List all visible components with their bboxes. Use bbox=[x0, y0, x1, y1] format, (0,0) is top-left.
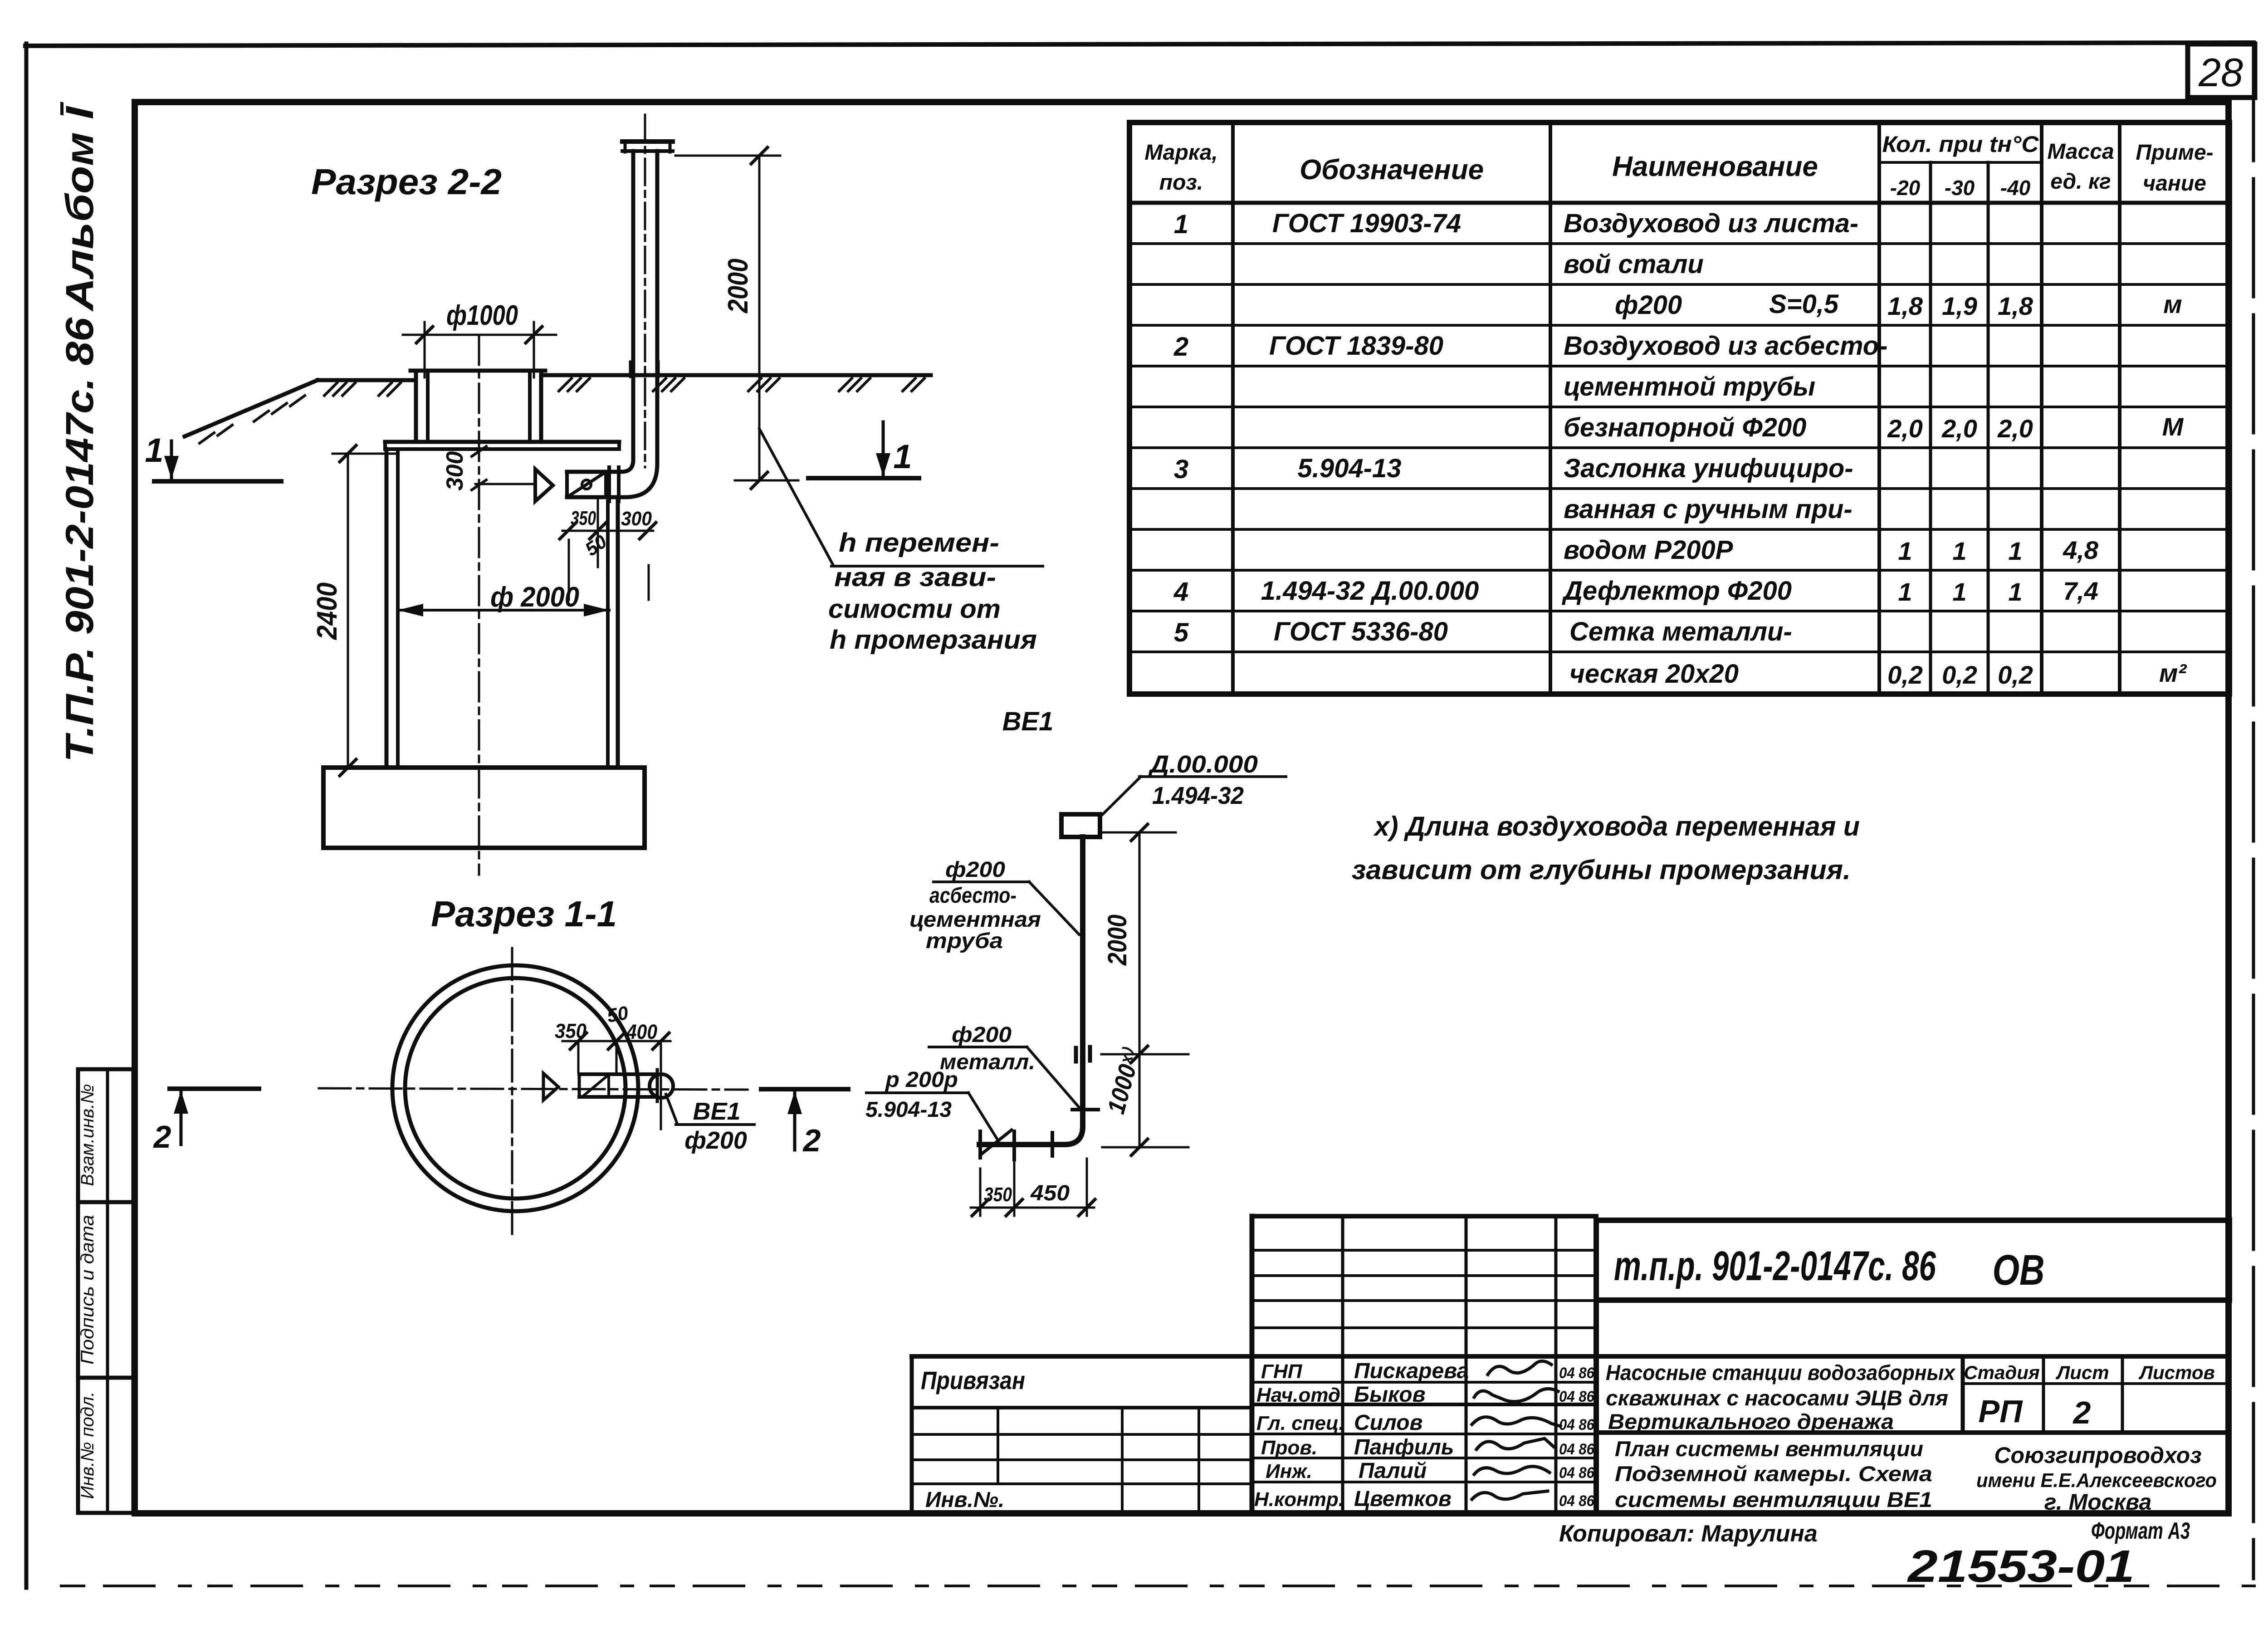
svg-text:04 86: 04 86 bbox=[1559, 1416, 1595, 1433]
dim f1000 line bbox=[403, 334, 556, 336]
pipe flange tick left bbox=[629, 362, 632, 377]
damper box bbox=[565, 472, 569, 497]
f2000 arrow left bbox=[398, 604, 423, 616]
table row line 2 bbox=[1129, 283, 2229, 286]
neck collar top bbox=[411, 369, 545, 373]
svg-text:1: 1 bbox=[1952, 577, 1966, 606]
tick a bbox=[560, 523, 576, 539]
section marker 1 right line bbox=[808, 476, 919, 480]
svg-text:28: 28 bbox=[2198, 50, 2243, 95]
svg-text:Цветков: Цветков bbox=[1354, 1487, 1452, 1511]
page bottom scan dashes bbox=[61, 1585, 2261, 1587]
ladder top bbox=[1252, 1214, 1596, 1218]
big cell bottom band line bbox=[1596, 1430, 2229, 1435]
dim ext b bbox=[616, 1041, 618, 1072]
svg-text:400: 400 bbox=[626, 1020, 657, 1043]
svg-text:Быков: Быков bbox=[1354, 1383, 1426, 1407]
svg-text:г. Москва: г. Москва bbox=[2044, 1489, 2152, 1515]
svg-text:Разрез 1-1: Разрез 1-1 bbox=[431, 894, 617, 934]
svg-text:1,8: 1,8 bbox=[1998, 292, 2033, 320]
pipe centerline vertical bbox=[644, 115, 646, 467]
tick c bbox=[640, 523, 656, 539]
svg-text:скважинах с насосами ЭЦВ для: скважинах с насосами ЭЦВ для bbox=[1606, 1386, 1948, 1410]
svg-text:ф 2000: ф 2000 bbox=[490, 582, 579, 613]
asbestos label underline bbox=[934, 881, 1029, 883]
svg-text:Взам.инв.№: Взам.инв.№ bbox=[78, 1084, 98, 1186]
svg-text:ф1000: ф1000 bbox=[446, 300, 518, 331]
dim 300 vertical label ticks bbox=[472, 446, 486, 456]
marker 2 right arrowhead bbox=[787, 1091, 802, 1114]
svg-text:5.904-13: 5.904-13 bbox=[865, 1098, 952, 1122]
ground hatches right bbox=[559, 378, 924, 391]
deflector label underline bbox=[1139, 775, 1286, 778]
table col divider -20/-30 bbox=[1929, 162, 1932, 694]
svg-text:х) Длина воздуховода перемен: х) Длина воздуховода переменная и bbox=[1373, 811, 1860, 841]
ladder row b bbox=[1252, 1274, 1596, 1277]
svg-text:5: 5 bbox=[1174, 618, 1189, 647]
vent pipe wall right bbox=[567, 151, 657, 497]
svg-text:вой стали: вой стали bbox=[1564, 250, 1704, 279]
svg-text:Пров.: Пров. bbox=[1261, 1437, 1317, 1459]
VE1 label underline bbox=[676, 1123, 754, 1126]
svg-text:цементной трубы: цементной трубы bbox=[1564, 372, 1815, 401]
svg-text:РП: РП bbox=[1978, 1394, 2023, 1429]
svg-text:ВЕ1: ВЕ1 bbox=[693, 1098, 740, 1125]
svg-text:5.904-13: 5.904-13 bbox=[1298, 454, 1402, 483]
svg-text:450: 450 bbox=[1030, 1181, 1070, 1205]
svg-text:04 86: 04 86 bbox=[1559, 1388, 1595, 1405]
title block big cell bbox=[1596, 1220, 2229, 1300]
svg-text:Стадия: Стадия bbox=[1964, 1362, 2039, 1383]
svg-text:Дефлектор Ф200: Дефлектор Ф200 bbox=[1561, 576, 1792, 606]
svg-text:04 86: 04 86 bbox=[1559, 1365, 1595, 1382]
svg-text:ГОСТ 5336-80: ГОСТ 5336-80 bbox=[1274, 617, 1448, 646]
svg-text:Кол. при tн°С: Кол. при tн°С bbox=[1882, 132, 2039, 157]
svg-text:1: 1 bbox=[2008, 537, 2022, 565]
dim ext top bbox=[1101, 832, 1176, 834]
svg-text:Обозначение: Обозначение bbox=[1300, 154, 1484, 186]
svg-text:3: 3 bbox=[1174, 455, 1188, 484]
privyazan row line 2 bbox=[912, 1433, 1252, 1436]
privyazan vertical 1 bbox=[997, 1408, 999, 1484]
ladder row d bbox=[1252, 1326, 1596, 1329]
section marker 1 left line bbox=[154, 479, 281, 484]
svg-text:1: 1 bbox=[1952, 537, 1966, 565]
svg-text:цементная: цементная bbox=[909, 908, 1041, 932]
chamber centerline bbox=[478, 336, 480, 875]
marker 1 left arrow shaft bbox=[170, 441, 173, 478]
svg-text:м²: м² bbox=[2159, 659, 2187, 687]
vent duct pipe run bbox=[979, 837, 1083, 1145]
slab left end cap bbox=[383, 442, 387, 449]
dim ext a bbox=[577, 1041, 580, 1072]
dim tick c bbox=[653, 1033, 669, 1049]
left stamp box Inv.N podl. bbox=[78, 1378, 133, 1513]
svg-text:р 200р: р 200р bbox=[885, 1068, 958, 1092]
duct stub top wall bbox=[579, 1072, 657, 1076]
signature squiggle 4 bbox=[1476, 1438, 1554, 1449]
svg-text:ф200: ф200 bbox=[1615, 290, 1682, 320]
dim 2400 ext top bbox=[332, 453, 398, 455]
svg-text:2,0: 2,0 bbox=[1887, 414, 1923, 443]
ladder vertical 2 bbox=[1465, 1216, 1468, 1513]
svg-text:Привязан: Привязан bbox=[921, 1366, 1025, 1394]
svg-text:ванная с ручным при-: ванная с ручным при- bbox=[1564, 494, 1853, 524]
main horizontal privyazan/gnp top bbox=[912, 1354, 2229, 1359]
marker 2 left arrow shaft bbox=[180, 1091, 183, 1145]
svg-text:2000: 2000 bbox=[723, 259, 754, 313]
svg-text:Пискарева: Пискарева bbox=[1354, 1359, 1469, 1383]
svg-text:ная в зави-: ная в зави- bbox=[834, 563, 996, 592]
table row line 11 bbox=[1129, 651, 2229, 653]
svg-text:ческая 20х20: ческая 20х20 bbox=[1569, 659, 1739, 689]
chamber wall left inner bbox=[396, 449, 400, 768]
dim 2000 ext bottom bbox=[735, 479, 798, 482]
svg-text:ф200: ф200 bbox=[684, 1127, 747, 1154]
left stamp box Vzam.inv. bbox=[78, 1069, 133, 1202]
neck wall left inner bbox=[426, 371, 430, 442]
svg-text:имени Е.Е.Алексеевского: имени Е.Е.Алексеевского bbox=[1976, 1469, 2217, 1492]
svg-text:м: м bbox=[2163, 290, 2182, 318]
svg-text:350: 350 bbox=[555, 1019, 587, 1042]
air flow arrow bbox=[535, 469, 553, 501]
dim f2000 line with arrows bbox=[398, 609, 609, 612]
h note underline bbox=[831, 565, 1043, 567]
svg-text:04 86: 04 86 bbox=[1559, 1441, 1595, 1458]
dim f1000 tick right bbox=[526, 327, 542, 343]
svg-text:ГОСТ 1839-80: ГОСТ 1839-80 bbox=[1269, 331, 1443, 361]
foundation base bbox=[323, 768, 645, 848]
dim 2000 line bbox=[758, 156, 761, 480]
pipe flange tick right bbox=[657, 362, 660, 377]
bottom dim ext a bbox=[979, 1169, 982, 1216]
bottom dim ext b bbox=[1013, 1161, 1016, 1216]
svg-text:1: 1 bbox=[145, 431, 163, 469]
bottom tick c bbox=[1079, 1199, 1095, 1216]
svg-text:поз.: поз. bbox=[1159, 171, 1203, 195]
table row line 6 bbox=[1129, 446, 2229, 449]
svg-text:Подпись и дата: Подпись и дата bbox=[78, 1215, 98, 1365]
svg-text:Гл. спец.: Гл. спец. bbox=[1256, 1412, 1344, 1434]
duct wall divider bbox=[607, 1074, 610, 1097]
privyazan row line 4 bbox=[912, 1482, 1252, 1485]
ext3 bbox=[648, 565, 650, 600]
svg-text:Т.П.Р. 901-2-0147с. 86: Т.П.Р. 901-2-0147с. 86 bbox=[58, 317, 102, 762]
table row line 5 bbox=[1129, 406, 2229, 408]
svg-text:Силов: Силов bbox=[1354, 1411, 1423, 1435]
dim f1000 tick left bbox=[416, 327, 433, 343]
dim 2000 tick top bbox=[751, 147, 767, 164]
inner drawing frame bbox=[135, 102, 2229, 1513]
svg-text:2: 2 bbox=[153, 1119, 171, 1155]
vent pipe cap bottom bbox=[622, 149, 673, 153]
neck wall right outer bbox=[539, 371, 543, 442]
dim line 350/300 bbox=[562, 530, 653, 532]
neck wall right inner bbox=[528, 371, 532, 442]
svg-text:Марка,: Марка, bbox=[1144, 141, 1218, 165]
table col divider marka/oboznachenie bbox=[1231, 122, 1235, 694]
page outer border top bbox=[25, 43, 2253, 46]
svg-text:2000: 2000 bbox=[1103, 915, 1132, 966]
title block ladder left edge bbox=[1250, 1216, 1255, 1513]
dim tick top bbox=[1131, 824, 1148, 841]
table row line 1 bbox=[1129, 242, 2229, 245]
page outer border left bbox=[24, 44, 29, 1588]
privyazan box left bbox=[910, 1356, 914, 1513]
svg-text:Наименование: Наименование bbox=[1612, 151, 1818, 182]
dim ext mid bbox=[1101, 1053, 1188, 1056]
svg-text:1,9: 1,9 bbox=[1942, 292, 1977, 320]
ladder vertical 3 bbox=[1554, 1216, 1558, 1513]
dim 2000 tick bottom bbox=[751, 472, 767, 489]
svg-text:М: М bbox=[2162, 412, 2184, 441]
bottom dim line bbox=[971, 1207, 1094, 1209]
svg-text:Инж.: Инж. bbox=[1266, 1460, 1312, 1482]
dim tick a bbox=[570, 1033, 587, 1049]
dim 2400 tick top bbox=[340, 445, 356, 462]
svg-text:300: 300 bbox=[621, 508, 652, 530]
table header split under kol pri t bbox=[1879, 161, 2042, 164]
svg-text:Масса: Масса bbox=[2047, 140, 2114, 164]
svg-text:0,2: 0,2 bbox=[1887, 660, 1923, 689]
page outer border right bbox=[2252, 43, 2255, 1579]
air flow arrow plan bbox=[543, 1073, 558, 1100]
svg-text:т.п.р. 901-2-0147с. 86: т.п.р. 901-2-0147с. 86 bbox=[1614, 1243, 1936, 1289]
chamber wall left outer bbox=[385, 449, 389, 768]
damper label underline bbox=[866, 1091, 968, 1094]
svg-text:1: 1 bbox=[1174, 210, 1188, 239]
list/listov divider bbox=[2121, 1356, 2124, 1433]
svg-text:Листов: Листов bbox=[2138, 1362, 2215, 1383]
slope hatches bbox=[200, 396, 305, 443]
svg-text:Инв.№.: Инв.№. bbox=[925, 1488, 1004, 1512]
svg-text:2,0: 2,0 bbox=[1941, 414, 1977, 443]
svg-text:Вертикального дренажа: Вертикального дренажа bbox=[1608, 1409, 1894, 1433]
section marker 2 right line bbox=[761, 1087, 848, 1091]
svg-text:ГОСТ 19903-74: ГОСТ 19903-74 bbox=[1272, 209, 1461, 238]
svg-text:Палий: Палий bbox=[1359, 1459, 1427, 1483]
signature row nach bottom bbox=[1252, 1403, 1596, 1406]
left stamp box Podpis i data bbox=[78, 1202, 133, 1378]
leader to VE1 label bbox=[666, 1094, 677, 1124]
table header bottom bbox=[1129, 201, 2229, 205]
signature squiggle 2 bbox=[1474, 1389, 1558, 1401]
ground slope bbox=[185, 380, 318, 436]
svg-text:-40: -40 bbox=[2000, 176, 2031, 200]
svg-text:ГНП: ГНП bbox=[1261, 1360, 1303, 1383]
svg-text:1,8: 1,8 bbox=[1887, 292, 1923, 320]
privyazan row line 1 bbox=[912, 1406, 1252, 1409]
table col divider -30/-40 bbox=[1987, 162, 1990, 694]
marker 2 right arrow shaft bbox=[793, 1092, 797, 1150]
marker 2 left arrowhead bbox=[174, 1091, 188, 1114]
signature row prov bottom bbox=[1252, 1457, 1596, 1459]
dim 2400 line bbox=[347, 454, 349, 768]
damper blade bbox=[570, 474, 603, 495]
svg-text:4,8: 4,8 bbox=[2063, 536, 2099, 564]
sheet number box bbox=[2188, 44, 2255, 98]
stadiya col left bbox=[1961, 1356, 1965, 1433]
dim ext c bbox=[660, 1041, 662, 1129]
dim ext bottom bbox=[1102, 1146, 1188, 1149]
svg-text:Копировал: Марулина: Копировал: Марулина bbox=[1559, 1521, 1818, 1547]
svg-text:2: 2 bbox=[2072, 1395, 2091, 1430]
ladder row a bbox=[1252, 1249, 1596, 1252]
elbow flange circle bbox=[650, 1074, 673, 1098]
damper leader bbox=[968, 1093, 997, 1140]
svg-text:Приме-: Приме- bbox=[2136, 141, 2213, 165]
duct end tick bbox=[656, 1070, 659, 1101]
svg-text:ВЕ1: ВЕ1 bbox=[1002, 707, 1054, 736]
duct stub left cap bbox=[578, 1074, 581, 1097]
dim line 350/50/400 bbox=[562, 1040, 670, 1042]
svg-text:Насосные станции водозаборных: Насосные станции водозаборных bbox=[1606, 1360, 1956, 1384]
ground level dash on pipe bbox=[1072, 1108, 1098, 1111]
svg-text:Подземной камеры. Схема: Подземной камеры. Схема bbox=[1615, 1462, 1932, 1486]
svg-text:ф200: ф200 bbox=[945, 858, 1005, 882]
table row line 9 bbox=[1129, 569, 2229, 572]
table row line 3 bbox=[1129, 324, 2229, 327]
vent pipe cap top plate bbox=[622, 139, 673, 144]
svg-text:1.494-32: 1.494-32 bbox=[1152, 782, 1244, 809]
dim 2000 ext top bbox=[675, 155, 780, 157]
svg-text:План системы вентиляции: План системы вентиляции bbox=[1615, 1437, 1923, 1461]
svg-text:асбесто-: асбесто- bbox=[929, 884, 1017, 908]
marker 1 left arrowhead bbox=[164, 456, 179, 479]
stadiya/list divider bbox=[2042, 1356, 2045, 1433]
damper tick left bbox=[978, 1131, 982, 1158]
damper handle circle bbox=[582, 480, 591, 489]
chamber wall right outer bbox=[616, 501, 620, 768]
privyazan vertical 2 bbox=[1121, 1408, 1124, 1513]
dim vertical line bbox=[1139, 832, 1141, 1147]
svg-text:-30: -30 bbox=[1945, 176, 1975, 200]
svg-text:ед. кг: ед. кг bbox=[2050, 170, 2111, 194]
duct stub bottom wall bbox=[579, 1095, 657, 1099]
dim tick b bbox=[608, 1033, 625, 1049]
svg-text:2,0: 2,0 bbox=[1997, 414, 2033, 443]
signature row glspec bottom bbox=[1252, 1433, 1596, 1435]
svg-text:2: 2 bbox=[1173, 332, 1188, 362]
ground line right bbox=[543, 373, 931, 377]
deflector leader bbox=[1101, 777, 1141, 816]
svg-text:1: 1 bbox=[1898, 577, 1912, 606]
chamber top slab upper line bbox=[385, 440, 619, 444]
svg-text:21553-01: 21553-01 bbox=[1907, 1541, 2135, 1592]
svg-text:системы вентиляции ВЕ1: системы вентиляции ВЕ1 bbox=[1615, 1487, 1932, 1512]
section marker 2 left line bbox=[170, 1086, 259, 1091]
table row line 10 bbox=[1129, 610, 2229, 612]
duct damper blade bbox=[584, 1077, 606, 1095]
svg-text:S=0,5: S=0,5 bbox=[1769, 289, 1839, 319]
ext2 bbox=[597, 499, 599, 567]
horizontal centerline bbox=[319, 1088, 748, 1090]
svg-text:ОВ: ОВ bbox=[1993, 1246, 2045, 1294]
stadiya header bottom bbox=[1963, 1382, 2229, 1385]
svg-text:0,2: 0,2 bbox=[1998, 660, 2033, 689]
svg-text:Д.00.000: Д.00.000 bbox=[1148, 751, 1258, 778]
privyazan row line 3 bbox=[912, 1458, 1252, 1461]
svg-text:2: 2 bbox=[802, 1123, 821, 1158]
dim lines 350 300 below damper ext1 bbox=[568, 540, 570, 600]
dim 2400 tick bottom bbox=[340, 759, 356, 776]
svg-text:300: 300 bbox=[442, 451, 468, 491]
svg-text:Разрез 2-2: Разрез 2-2 bbox=[311, 161, 502, 202]
table row line 4 bbox=[1129, 365, 2229, 367]
svg-text:2400: 2400 bbox=[312, 582, 343, 640]
dim tick bottom bbox=[1131, 1139, 1148, 1155]
vent pipe wall left bbox=[567, 151, 633, 472]
tick b bbox=[590, 523, 606, 539]
deflector box bbox=[1061, 814, 1100, 837]
marker 1 right arrow shaft bbox=[882, 422, 885, 475]
table col divider massa/primechanie bbox=[2118, 122, 2121, 694]
svg-text:0,2: 0,2 bbox=[1942, 660, 1977, 689]
svg-text:водом Р200Р: водом Р200Р bbox=[1564, 535, 1733, 565]
dim tick mid bbox=[1131, 1046, 1148, 1062]
chamber circle inner bbox=[405, 978, 626, 1199]
slab right end cap bbox=[617, 442, 621, 449]
pipe joint tick mid bbox=[1051, 1133, 1054, 1156]
dim f1000 ext left bbox=[424, 322, 426, 377]
svg-text:Нач.отд.: Нач.отд. bbox=[1256, 1384, 1346, 1406]
svg-text:-20: -20 bbox=[1890, 176, 1921, 200]
svg-text:1: 1 bbox=[893, 438, 912, 475]
svg-text:Формат А3: Формат А3 bbox=[2091, 1518, 2190, 1544]
signature squiggle 5 bbox=[1474, 1467, 1549, 1474]
signature squiggle 6 bbox=[1472, 1491, 1548, 1499]
svg-text:Заслонка унифициро-: Заслонка унифициро- bbox=[1564, 454, 1853, 483]
svg-text:Сетка металли-: Сетка металли- bbox=[1569, 617, 1792, 646]
svg-text:1.494-32 Д.00.000: 1.494-32 Д.00.000 bbox=[1261, 576, 1479, 606]
signature squiggle 3 bbox=[1472, 1417, 1560, 1426]
privyazan vertical 3 bbox=[1198, 1408, 1200, 1513]
chamber circle outer bbox=[392, 965, 638, 1211]
chamber wall right inner bbox=[606, 501, 610, 768]
table col divider kol/massa bbox=[2040, 122, 2043, 694]
svg-text:Инв.№ подл.: Инв.№ подл. bbox=[78, 1391, 98, 1499]
svg-text:350: 350 bbox=[571, 507, 596, 529]
svg-text:1: 1 bbox=[1898, 537, 1912, 565]
table row line 7 bbox=[1129, 487, 2229, 490]
leader to h note bbox=[759, 429, 833, 565]
svg-text:Альбом Ī: Альбом Ī bbox=[58, 101, 102, 312]
bottom dim ext c bbox=[1086, 1159, 1088, 1216]
svg-text:04 86: 04 86 bbox=[1559, 1492, 1595, 1510]
svg-text:h промерзания: h промерзания bbox=[830, 625, 1037, 655]
damper blade diagonal bbox=[982, 1130, 1012, 1154]
f2000 arrow right bbox=[584, 604, 609, 616]
svg-text:4: 4 bbox=[1173, 577, 1188, 607]
signature row inzh bottom bbox=[1252, 1481, 1596, 1483]
cap end stub right bbox=[669, 142, 672, 152]
chamber top slab lower line bbox=[385, 447, 619, 451]
asbestos leader bbox=[1029, 882, 1079, 934]
material joint tick 1 bbox=[1074, 1048, 1078, 1062]
marker 1 right arrowhead bbox=[876, 453, 890, 476]
bottom tick b bbox=[1006, 1199, 1022, 1216]
table col divider naimenovanie/kol bbox=[1877, 122, 1881, 694]
svg-text:7,4: 7,4 bbox=[2063, 577, 2098, 605]
svg-text:чание: чание bbox=[2143, 171, 2206, 196]
ladder vertical 1 bbox=[1341, 1216, 1344, 1513]
svg-text:1: 1 bbox=[2008, 577, 2022, 606]
svg-text:безнапорной Ф200: безнапорной Ф200 bbox=[1564, 413, 1806, 442]
neck wall left outer bbox=[414, 371, 418, 442]
svg-text:04 86: 04 86 bbox=[1559, 1464, 1595, 1482]
svg-text:симости от: симости от bbox=[828, 594, 1001, 624]
svg-text:труба: труба bbox=[926, 929, 1003, 953]
